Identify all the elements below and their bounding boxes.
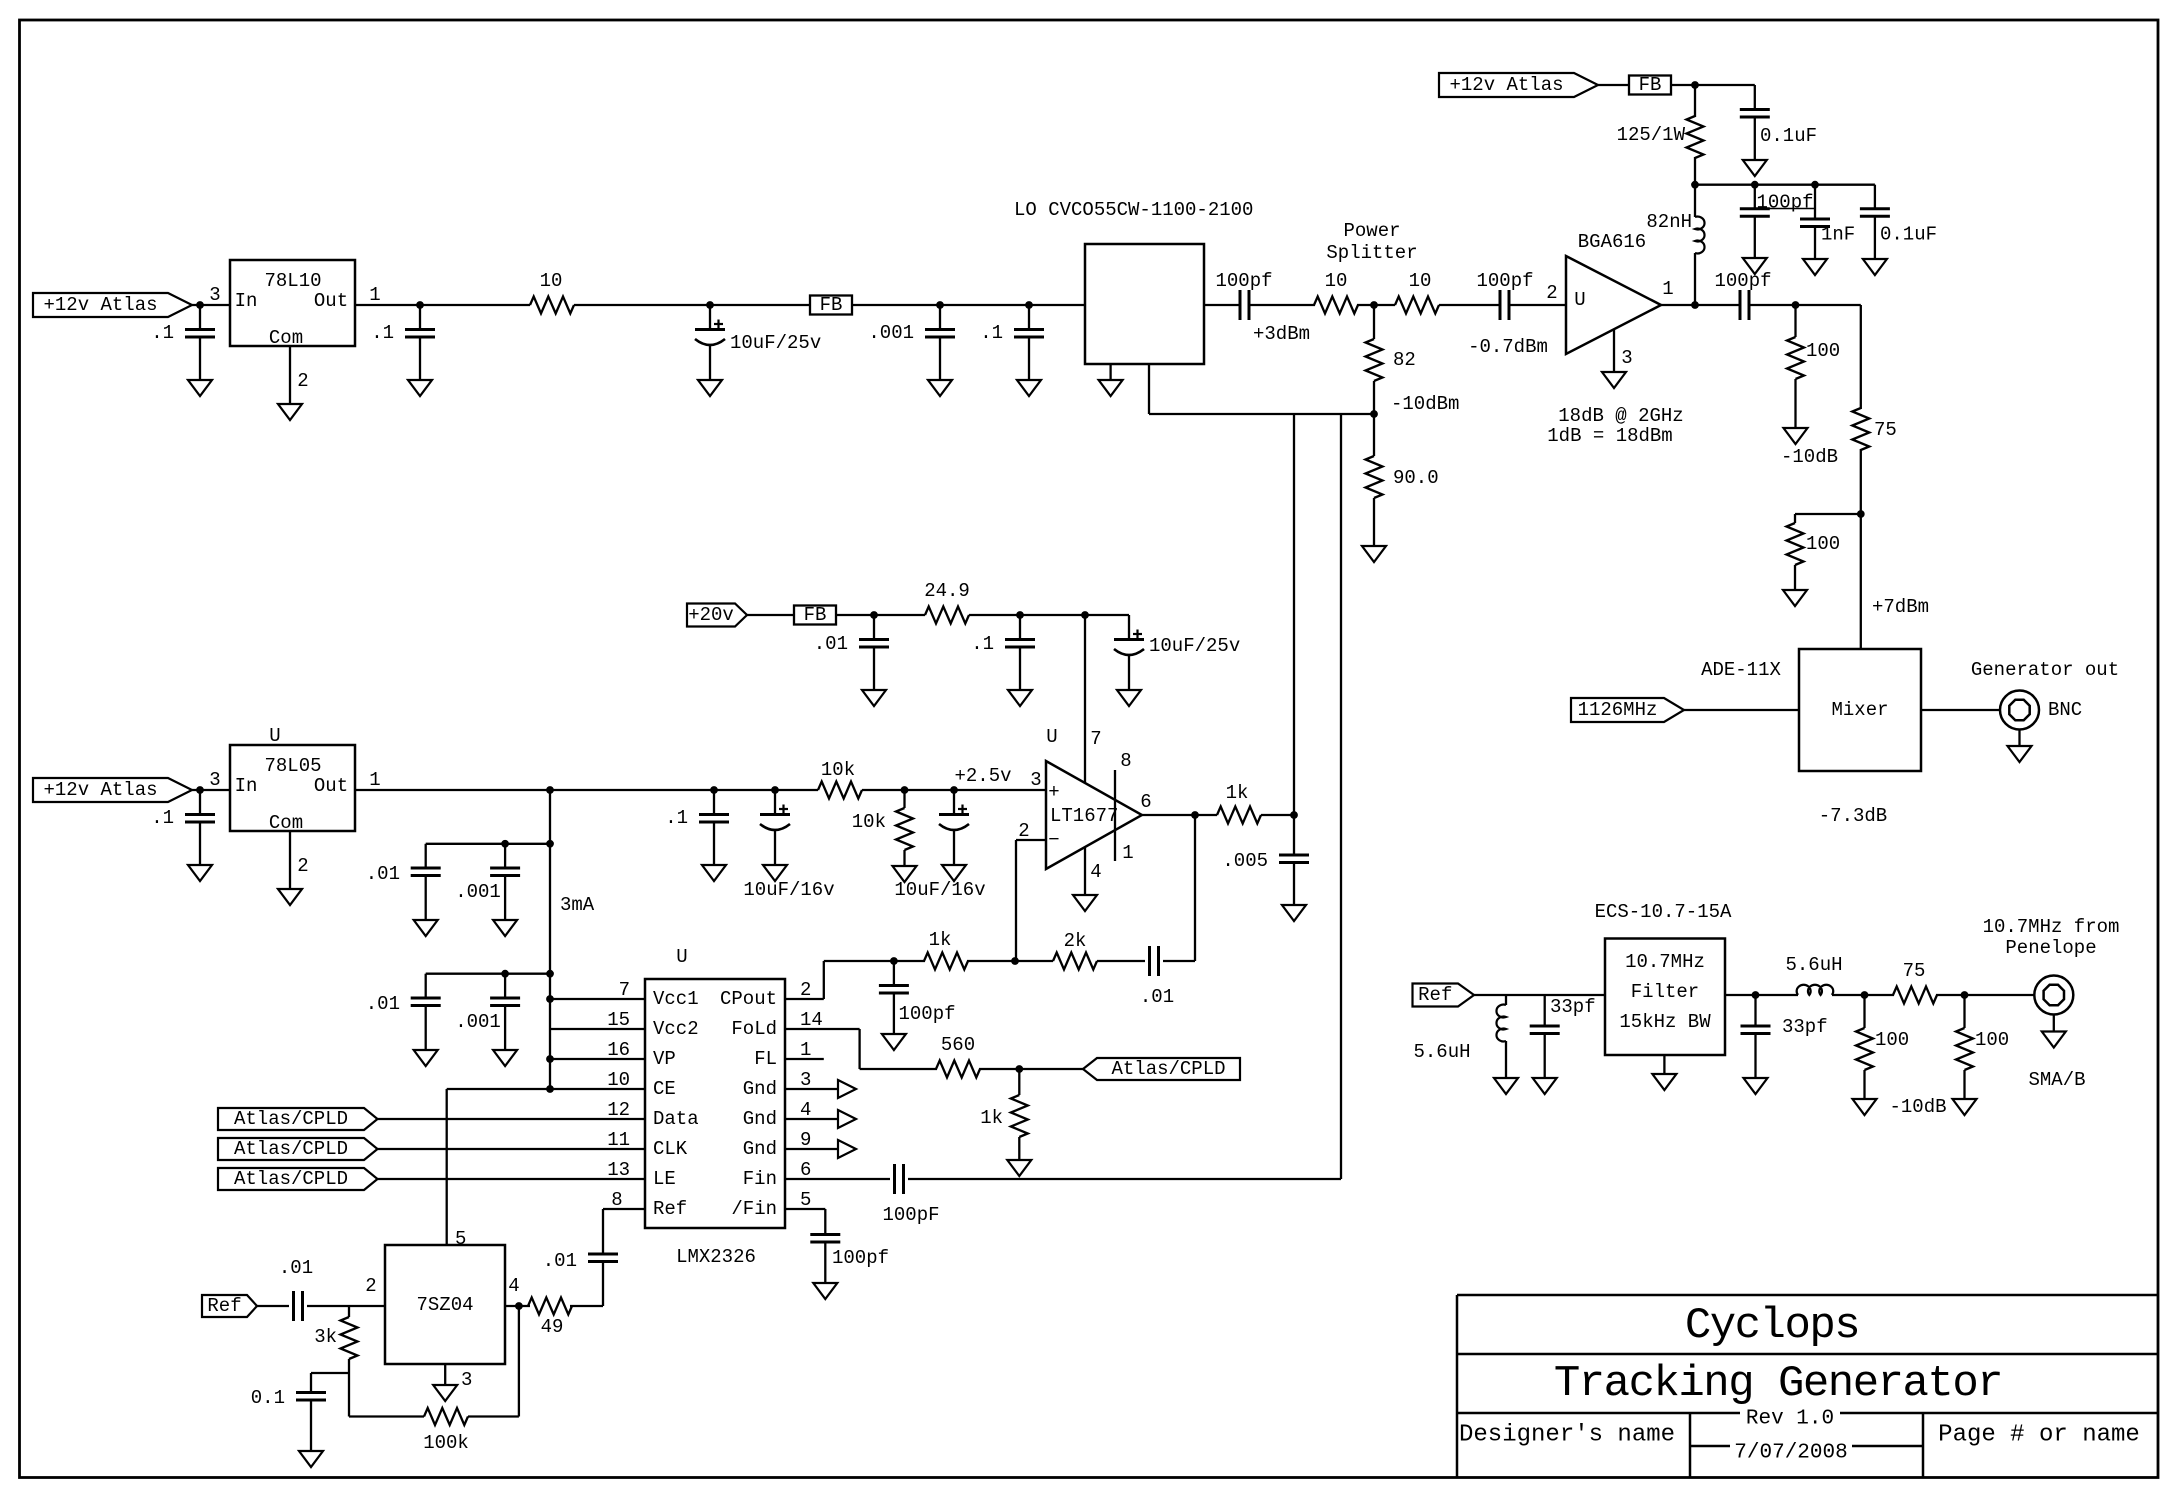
svg-text:Out: Out: [314, 775, 348, 797]
svg-text:100: 100: [1806, 533, 1840, 555]
svg-text:2: 2: [1018, 820, 1029, 842]
svg-text:49: 49: [541, 1316, 564, 1338]
svg-text:1: 1: [800, 1039, 811, 1061]
svg-text:.1: .1: [371, 322, 394, 344]
svg-text:6: 6: [800, 1159, 811, 1181]
svg-text:10: 10: [607, 1069, 630, 1091]
svg-text:LT1677: LT1677: [1050, 805, 1118, 827]
svg-text:10k: 10k: [852, 811, 886, 833]
svg-text:100pf: 100pf: [898, 1003, 955, 1025]
svg-text:Cyclops: Cyclops: [1685, 1301, 1859, 1351]
svg-text:5: 5: [800, 1189, 811, 1211]
svg-text:10: 10: [1325, 270, 1348, 292]
svg-text:.001: .001: [455, 881, 501, 903]
svg-text:7/07/2008: 7/07/2008: [1734, 1442, 1847, 1465]
svg-text:13: 13: [607, 1159, 630, 1181]
svg-text:12: 12: [607, 1099, 630, 1121]
svg-text:CLK: CLK: [653, 1138, 688, 1160]
svg-text:Atlas/CPLD: Atlas/CPLD: [1111, 1058, 1225, 1080]
svg-text:4: 4: [1090, 861, 1101, 883]
svg-text:FB: FB: [820, 294, 843, 316]
svg-text:3: 3: [1621, 347, 1632, 369]
svg-text:5.6uH: 5.6uH: [1785, 954, 1842, 976]
svg-text:Penelope: Penelope: [2005, 937, 2096, 959]
svg-text:BNC: BNC: [2048, 699, 2082, 721]
svg-text:Power: Power: [1343, 220, 1400, 242]
svg-text:100: 100: [1806, 340, 1840, 362]
svg-text:10uF/25v: 10uF/25v: [1149, 635, 1240, 657]
svg-text:ECS-10.7-15A: ECS-10.7-15A: [1595, 901, 1732, 923]
svg-text:-10dB: -10dB: [1781, 446, 1838, 468]
svg-text:15kHz BW: 15kHz BW: [1619, 1011, 1711, 1033]
svg-text:10uF/16v: 10uF/16v: [894, 879, 985, 901]
svg-text:90.0: 90.0: [1393, 467, 1439, 489]
svg-text:82: 82: [1393, 349, 1416, 371]
svg-text:Designer's name: Designer's name: [1459, 1422, 1675, 1449]
svg-text:Com: Com: [269, 812, 303, 834]
svg-text:100pf: 100pf: [1756, 192, 1813, 214]
svg-text:15: 15: [607, 1009, 630, 1031]
svg-text:75: 75: [1903, 960, 1926, 982]
svg-text:Ref: Ref: [1418, 984, 1452, 1006]
svg-text:8: 8: [1120, 750, 1131, 772]
svg-text:3: 3: [1030, 769, 1041, 791]
svg-text:LE: LE: [653, 1168, 676, 1190]
svg-text:1: 1: [369, 769, 380, 791]
svg-text:+12v Atlas: +12v Atlas: [1449, 74, 1563, 96]
svg-text:10.7MHz: 10.7MHz: [1625, 951, 1705, 973]
svg-text:+: +: [1048, 781, 1059, 803]
svg-text:Com: Com: [269, 327, 303, 349]
svg-text:U: U: [676, 946, 687, 968]
svg-text:Filter: Filter: [1631, 981, 1699, 1003]
svg-text:+3dBm: +3dBm: [1253, 323, 1310, 345]
svg-text:7: 7: [1090, 728, 1101, 750]
svg-text:Fin: Fin: [743, 1168, 777, 1190]
svg-text:11: 11: [607, 1129, 630, 1151]
svg-text:33pf: 33pf: [1782, 1016, 1828, 1038]
svg-text:3: 3: [209, 284, 220, 306]
svg-text:-7.3dB: -7.3dB: [1819, 805, 1887, 827]
svg-text:8: 8: [611, 1189, 622, 1211]
svg-text:.01: .01: [814, 633, 848, 655]
svg-text:2k: 2k: [1064, 930, 1087, 952]
svg-text:Gnd: Gnd: [743, 1078, 777, 1100]
svg-text:FB: FB: [804, 604, 827, 626]
svg-text:FoLd: FoLd: [731, 1018, 777, 1040]
svg-text:7: 7: [619, 979, 630, 1001]
svg-text:125/1W: 125/1W: [1617, 124, 1686, 146]
svg-text:+2.5v: +2.5v: [954, 765, 1011, 787]
svg-text:6: 6: [1140, 791, 1151, 813]
svg-text:1nF: 1nF: [1821, 224, 1855, 246]
svg-text:1: 1: [369, 284, 380, 306]
svg-text:1k: 1k: [1226, 782, 1249, 804]
svg-text:.01: .01: [1140, 986, 1174, 1008]
svg-text:.001: .001: [868, 322, 914, 344]
svg-text:9: 9: [800, 1129, 811, 1151]
svg-text:.1: .1: [665, 807, 688, 829]
svg-text:100pf: 100pf: [1215, 270, 1272, 292]
svg-text:3: 3: [461, 1369, 472, 1391]
svg-text:1: 1: [1122, 842, 1133, 864]
svg-text:2: 2: [297, 370, 308, 392]
svg-text:Tracking Generator: Tracking Generator: [1554, 1359, 2002, 1409]
svg-text:Atlas/CPLD: Atlas/CPLD: [234, 1168, 348, 1190]
svg-text:Out: Out: [314, 290, 348, 312]
svg-text:VP: VP: [653, 1048, 676, 1070]
svg-text:10: 10: [1409, 270, 1432, 292]
svg-text:SMA/B: SMA/B: [2028, 1069, 2085, 1091]
svg-text:.01: .01: [366, 993, 400, 1015]
svg-text:−: −: [1048, 829, 1059, 851]
svg-text:Data: Data: [653, 1108, 699, 1130]
svg-text:10uF/16v: 10uF/16v: [743, 879, 834, 901]
svg-text:1: 1: [1662, 278, 1673, 300]
svg-text:3: 3: [209, 769, 220, 791]
svg-text:560: 560: [941, 1034, 975, 1056]
svg-text:U: U: [1574, 289, 1585, 311]
svg-text:82nH: 82nH: [1646, 211, 1692, 233]
svg-text:Generator out: Generator out: [1971, 659, 2119, 681]
svg-text:100: 100: [1875, 1029, 1909, 1051]
svg-text:Rev 1.0: Rev 1.0: [1746, 1408, 1834, 1431]
svg-text:.1: .1: [971, 633, 994, 655]
svg-text:BGA616: BGA616: [1578, 231, 1646, 253]
svg-text:Mixer: Mixer: [1831, 699, 1888, 721]
svg-text:2: 2: [297, 855, 308, 877]
svg-text:2: 2: [800, 979, 811, 1001]
svg-text:.01: .01: [366, 863, 400, 885]
svg-text:100pF: 100pF: [882, 1204, 939, 1226]
svg-text:LO CVCO55CW-1100-2100: LO CVCO55CW-1100-2100: [1014, 199, 1253, 221]
svg-text:10k: 10k: [821, 759, 855, 781]
svg-text:.005: .005: [1222, 850, 1268, 872]
svg-text:LMX2326: LMX2326: [676, 1246, 756, 1268]
svg-text:16: 16: [607, 1039, 630, 1061]
svg-text:33pf: 33pf: [1550, 996, 1596, 1018]
svg-text:In: In: [235, 290, 258, 312]
svg-text:+12v Atlas: +12v Atlas: [43, 779, 157, 801]
svg-text:+7dBm: +7dBm: [1872, 596, 1929, 618]
svg-text:Vcc1: Vcc1: [653, 988, 699, 1010]
svg-text:10.7MHz from: 10.7MHz from: [1983, 916, 2120, 938]
svg-text:0.1: 0.1: [251, 1387, 285, 1409]
svg-text:2: 2: [365, 1275, 376, 1297]
svg-text:78L05: 78L05: [264, 755, 321, 777]
svg-text:24.9: 24.9: [924, 580, 970, 602]
svg-text:.1: .1: [980, 322, 1003, 344]
svg-text:CE: CE: [653, 1078, 676, 1100]
svg-text:18dB @ 2GHz: 18dB @ 2GHz: [1558, 405, 1683, 427]
svg-text:Ref: Ref: [653, 1198, 687, 1220]
svg-text:14: 14: [800, 1009, 823, 1031]
svg-text:Ref: Ref: [207, 1295, 241, 1317]
svg-text:100k: 100k: [423, 1432, 469, 1454]
svg-text:0.1uF: 0.1uF: [1880, 224, 1937, 246]
svg-text:3k: 3k: [314, 1326, 337, 1348]
svg-text:U: U: [269, 725, 280, 747]
svg-text:-10dB: -10dB: [1889, 1096, 1946, 1118]
svg-text:5.6uH: 5.6uH: [1413, 1041, 1470, 1063]
svg-text:1dB = 18dBm: 1dB = 18dBm: [1547, 425, 1672, 447]
svg-text:100: 100: [1975, 1029, 2009, 1051]
svg-text:1k: 1k: [929, 929, 952, 951]
svg-text:+20v: +20v: [688, 604, 734, 626]
svg-text:Splitter: Splitter: [1326, 242, 1417, 264]
svg-text:75: 75: [1874, 419, 1897, 441]
svg-text:7SZ04: 7SZ04: [416, 1294, 473, 1316]
svg-text:4: 4: [800, 1099, 811, 1121]
svg-text:.01: .01: [543, 1250, 577, 1272]
svg-text:Vcc2: Vcc2: [653, 1018, 699, 1040]
svg-text:+12v Atlas: +12v Atlas: [43, 294, 157, 316]
svg-text:5: 5: [455, 1228, 466, 1250]
svg-text:U: U: [1046, 726, 1057, 748]
svg-text:.1: .1: [151, 807, 174, 829]
svg-text:3: 3: [800, 1069, 811, 1091]
svg-text:10uF/25v: 10uF/25v: [730, 332, 821, 354]
svg-text:.01: .01: [279, 1257, 313, 1279]
svg-text:FB: FB: [1639, 74, 1662, 96]
svg-text:10: 10: [540, 270, 563, 292]
svg-text:100pf: 100pf: [1476, 270, 1533, 292]
svg-text:ADE-11X: ADE-11X: [1701, 659, 1781, 681]
svg-text:/Fin: /Fin: [731, 1198, 777, 1220]
svg-text:CPout: CPout: [720, 988, 777, 1010]
svg-text:.1: .1: [151, 322, 174, 344]
svg-text:Atlas/CPLD: Atlas/CPLD: [234, 1138, 348, 1160]
svg-text:100pf: 100pf: [1714, 270, 1771, 292]
svg-text:1126MHz: 1126MHz: [1578, 699, 1658, 721]
svg-text:2: 2: [1546, 282, 1557, 304]
svg-text:78L10: 78L10: [264, 270, 321, 292]
svg-text:.001: .001: [455, 1011, 501, 1033]
svg-text:0.1uF: 0.1uF: [1760, 125, 1817, 147]
svg-text:In: In: [235, 775, 258, 797]
svg-text:-10dBm: -10dBm: [1391, 393, 1459, 415]
svg-text:Page # or name: Page # or name: [1938, 1422, 2140, 1449]
svg-text:-0.7dBm: -0.7dBm: [1468, 336, 1548, 358]
svg-text:Atlas/CPLD: Atlas/CPLD: [234, 1108, 348, 1130]
svg-text:FL: FL: [754, 1048, 777, 1070]
svg-text:1k: 1k: [980, 1107, 1003, 1129]
svg-text:Gnd: Gnd: [743, 1138, 777, 1160]
svg-text:4: 4: [508, 1275, 519, 1297]
svg-text:3mA: 3mA: [560, 894, 595, 916]
svg-text:Gnd: Gnd: [743, 1108, 777, 1130]
svg-text:100pf: 100pf: [832, 1247, 889, 1269]
